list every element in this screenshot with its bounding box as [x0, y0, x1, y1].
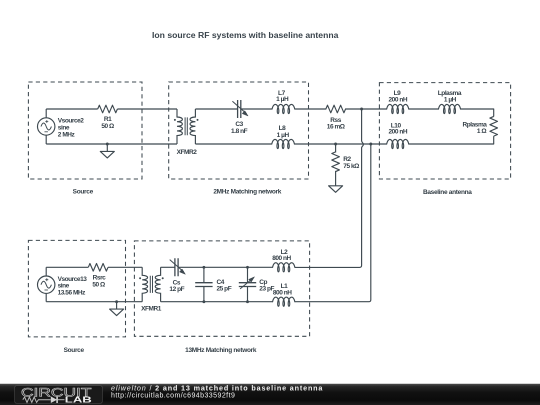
wire top: Rsrc to XFMR1 — [108, 266, 142, 268]
svg-text:200 nH: 200 nH — [388, 129, 407, 136]
CircuitLab logo resistor zigzag — [23, 397, 51, 402]
wire top: L9 to Lplasma — [409, 108, 439, 110]
label L2 800nH — [272, 249, 291, 262]
ground (source top) — [100, 144, 114, 158]
inductor L1 — [273, 297, 295, 306]
svg-text:http://circuitlab.com/c694b335: http://circuitlab.com/c694b33592ft9 — [111, 393, 235, 400]
svg-text:eliwelton / 2 and 13 matched i: eliwelton / 2 and 13 matched into baseli… — [111, 384, 323, 393]
wire top: Lplasma to Rplasma — [461, 109, 494, 116]
junction node B (bottom tap) — [369, 143, 372, 146]
wire top: Vsource2 to R1 — [46, 108, 97, 110]
svg-text:R1: R1 — [104, 116, 112, 123]
label Vsource2 — [58, 118, 85, 139]
svg-text:Source: Source — [64, 347, 85, 354]
svg-text:Baseline antenna: Baseline antenna — [423, 189, 472, 196]
svg-text:1 µH: 1 µH — [276, 96, 289, 103]
label R2 75kOhm — [343, 156, 359, 170]
label L7 1uH — [276, 90, 289, 103]
ground (R2) — [329, 186, 343, 193]
wire right: Rplasma to L10 — [409, 136, 494, 144]
dashed box: Source (bottom) — [28, 240, 125, 337]
svg-text:2MHz Matching network: 2MHz Matching network — [213, 188, 281, 195]
inductor L8 — [272, 139, 295, 148]
svg-text:L8: L8 — [279, 125, 287, 132]
resistor Rsrc — [88, 264, 108, 272]
junction R2 tap — [334, 143, 337, 146]
wire bottom: Vsource13 to XFMR1 — [46, 301, 142, 303]
label L8 1uH — [277, 125, 290, 139]
wire top: L7 to Rss — [295, 108, 327, 110]
svg-text:Ion source RF systems with bas: Ion source RF systems with baseline ante… — [152, 31, 339, 40]
svg-text:1 µH: 1 µH — [444, 96, 457, 103]
CircuitLab logo plate — [15, 386, 103, 404]
resistor Rplasma — [490, 116, 498, 136]
caption Baseline antenna — [423, 189, 472, 196]
wire top: Cs to C4 to Cp to L2 — [178, 266, 273, 268]
junction node A (top tap) — [360, 108, 363, 111]
wire bottom: Vsource2 to XFMR2 — [46, 143, 177, 145]
svg-text:16 mΩ: 16 mΩ — [327, 124, 345, 131]
transformer XFMR1 — [139, 267, 164, 301]
wire bottom: XFMR2 to L8 — [195, 143, 271, 145]
inductor L7 — [272, 104, 295, 113]
label XFMR1 — [141, 305, 162, 312]
label Lplasma 1uH — [438, 90, 462, 104]
svg-text:13MHz Matching network: 13MHz Matching network — [185, 347, 257, 354]
capacitor C4 — [195, 267, 212, 301]
wire Vsource2 bottom stub — [45, 135, 47, 144]
wire Vsource13 bottom stub — [45, 293, 47, 301]
label L1 800nH — [273, 283, 292, 296]
junction ground tap — [106, 143, 109, 146]
wire Vsource2 top stub — [45, 109, 47, 118]
label Cp 23pF — [259, 279, 274, 292]
svg-text:50 Ω: 50 Ω — [101, 123, 114, 130]
voltage source Vsource13 — [38, 276, 55, 293]
junction C4 bottom — [202, 300, 205, 303]
label C4 25pF — [217, 279, 232, 292]
label L10 200nH — [388, 122, 407, 135]
svg-text:LAB: LAB — [65, 395, 92, 405]
resistor Rss — [326, 105, 346, 113]
dashed box: Baseline antenna — [379, 83, 510, 179]
svg-text:13.56 MHz: 13.56 MHz — [58, 290, 87, 297]
junction ground tap (bottom) — [115, 300, 118, 303]
svg-text:800 nH: 800 nH — [272, 255, 291, 262]
caption Source (bottom) — [64, 347, 85, 354]
capacitor Cs (variable) — [170, 258, 186, 276]
wire vertical: node A to L2 (with crossover hop) — [295, 109, 364, 267]
svg-text:XFMR1: XFMR1 — [141, 305, 162, 312]
ground (source bottom) — [110, 302, 124, 316]
caption Source (top) — [73, 188, 94, 195]
label Rplasma 1Ohm — [463, 122, 488, 135]
inductor L10 — [387, 139, 409, 148]
svg-text:1 µH: 1 µH — [277, 132, 290, 139]
svg-text:50 Ω: 50 Ω — [92, 281, 105, 288]
caption 13MHz Matching network — [185, 347, 257, 354]
svg-text:75 kΩ: 75 kΩ — [343, 163, 359, 170]
caption 2MHz Matching network — [213, 188, 281, 195]
label L9 200nH — [388, 90, 407, 104]
wire top: Rss to L9 — [345, 108, 387, 110]
label C3 1.8nF — [231, 121, 248, 135]
svg-text:1.8 nF: 1.8 nF — [231, 128, 248, 135]
dashed box: 13MHz Matching network — [134, 241, 309, 336]
voltage source Vsource2 — [38, 118, 55, 135]
junction Cp bottom — [246, 300, 249, 303]
wire top: XFMR2 to C3 — [195, 108, 237, 110]
wire vertical: node B to L1 — [295, 144, 371, 302]
svg-text:XFMR2: XFMR2 — [177, 149, 198, 156]
wire top: C3 to L7 — [241, 108, 272, 110]
wire top: Vsource13 to Rsrc — [46, 266, 88, 268]
wire top: XFMR1 to Cs — [161, 266, 175, 268]
resistor R2 — [332, 144, 340, 186]
svg-text:200 nH: 200 nH — [388, 96, 407, 103]
label Rsrc 50 Ohm — [92, 275, 106, 289]
inductor L9 — [387, 104, 409, 113]
svg-text:Source: Source — [73, 188, 94, 195]
junction C4 top — [202, 266, 205, 269]
label XFMR2 — [177, 149, 198, 156]
capacitor Cp (variable) — [239, 267, 256, 301]
label Rss 16mOhm — [327, 117, 345, 131]
junction Cp top — [246, 266, 249, 269]
wire bottom: L8 to L10 — [294, 143, 386, 145]
transformer XFMR2 — [174, 109, 199, 144]
label R1 50 Ohm — [101, 116, 114, 130]
svg-text:2 MHz: 2 MHz — [58, 131, 76, 138]
svg-text:1 Ω: 1 Ω — [477, 128, 487, 135]
dashed box: 2MHz Matching network — [169, 82, 309, 179]
wire top: R1 to XFMR2 — [117, 108, 177, 110]
svg-text:12 pF: 12 pF — [169, 286, 184, 293]
CircuitLab logo diode — [51, 396, 57, 403]
inductor L2 — [273, 263, 295, 272]
resistor R1 — [98, 105, 118, 113]
svg-text:25 pF: 25 pF — [217, 286, 232, 293]
inductor Lplasma — [439, 104, 461, 113]
wire Vsource13 top stub — [45, 267, 47, 276]
wire bottom: XFMR1 to L1 — [161, 301, 273, 303]
capacitor C3 (variable) — [232, 100, 248, 118]
svg-text:C3: C3 — [235, 121, 243, 128]
dashed box: Source (top) — [28, 82, 142, 179]
svg-text:800 nH: 800 nH — [273, 289, 292, 296]
label Cs 12pF — [169, 279, 184, 293]
label Vsource13 — [58, 276, 88, 297]
